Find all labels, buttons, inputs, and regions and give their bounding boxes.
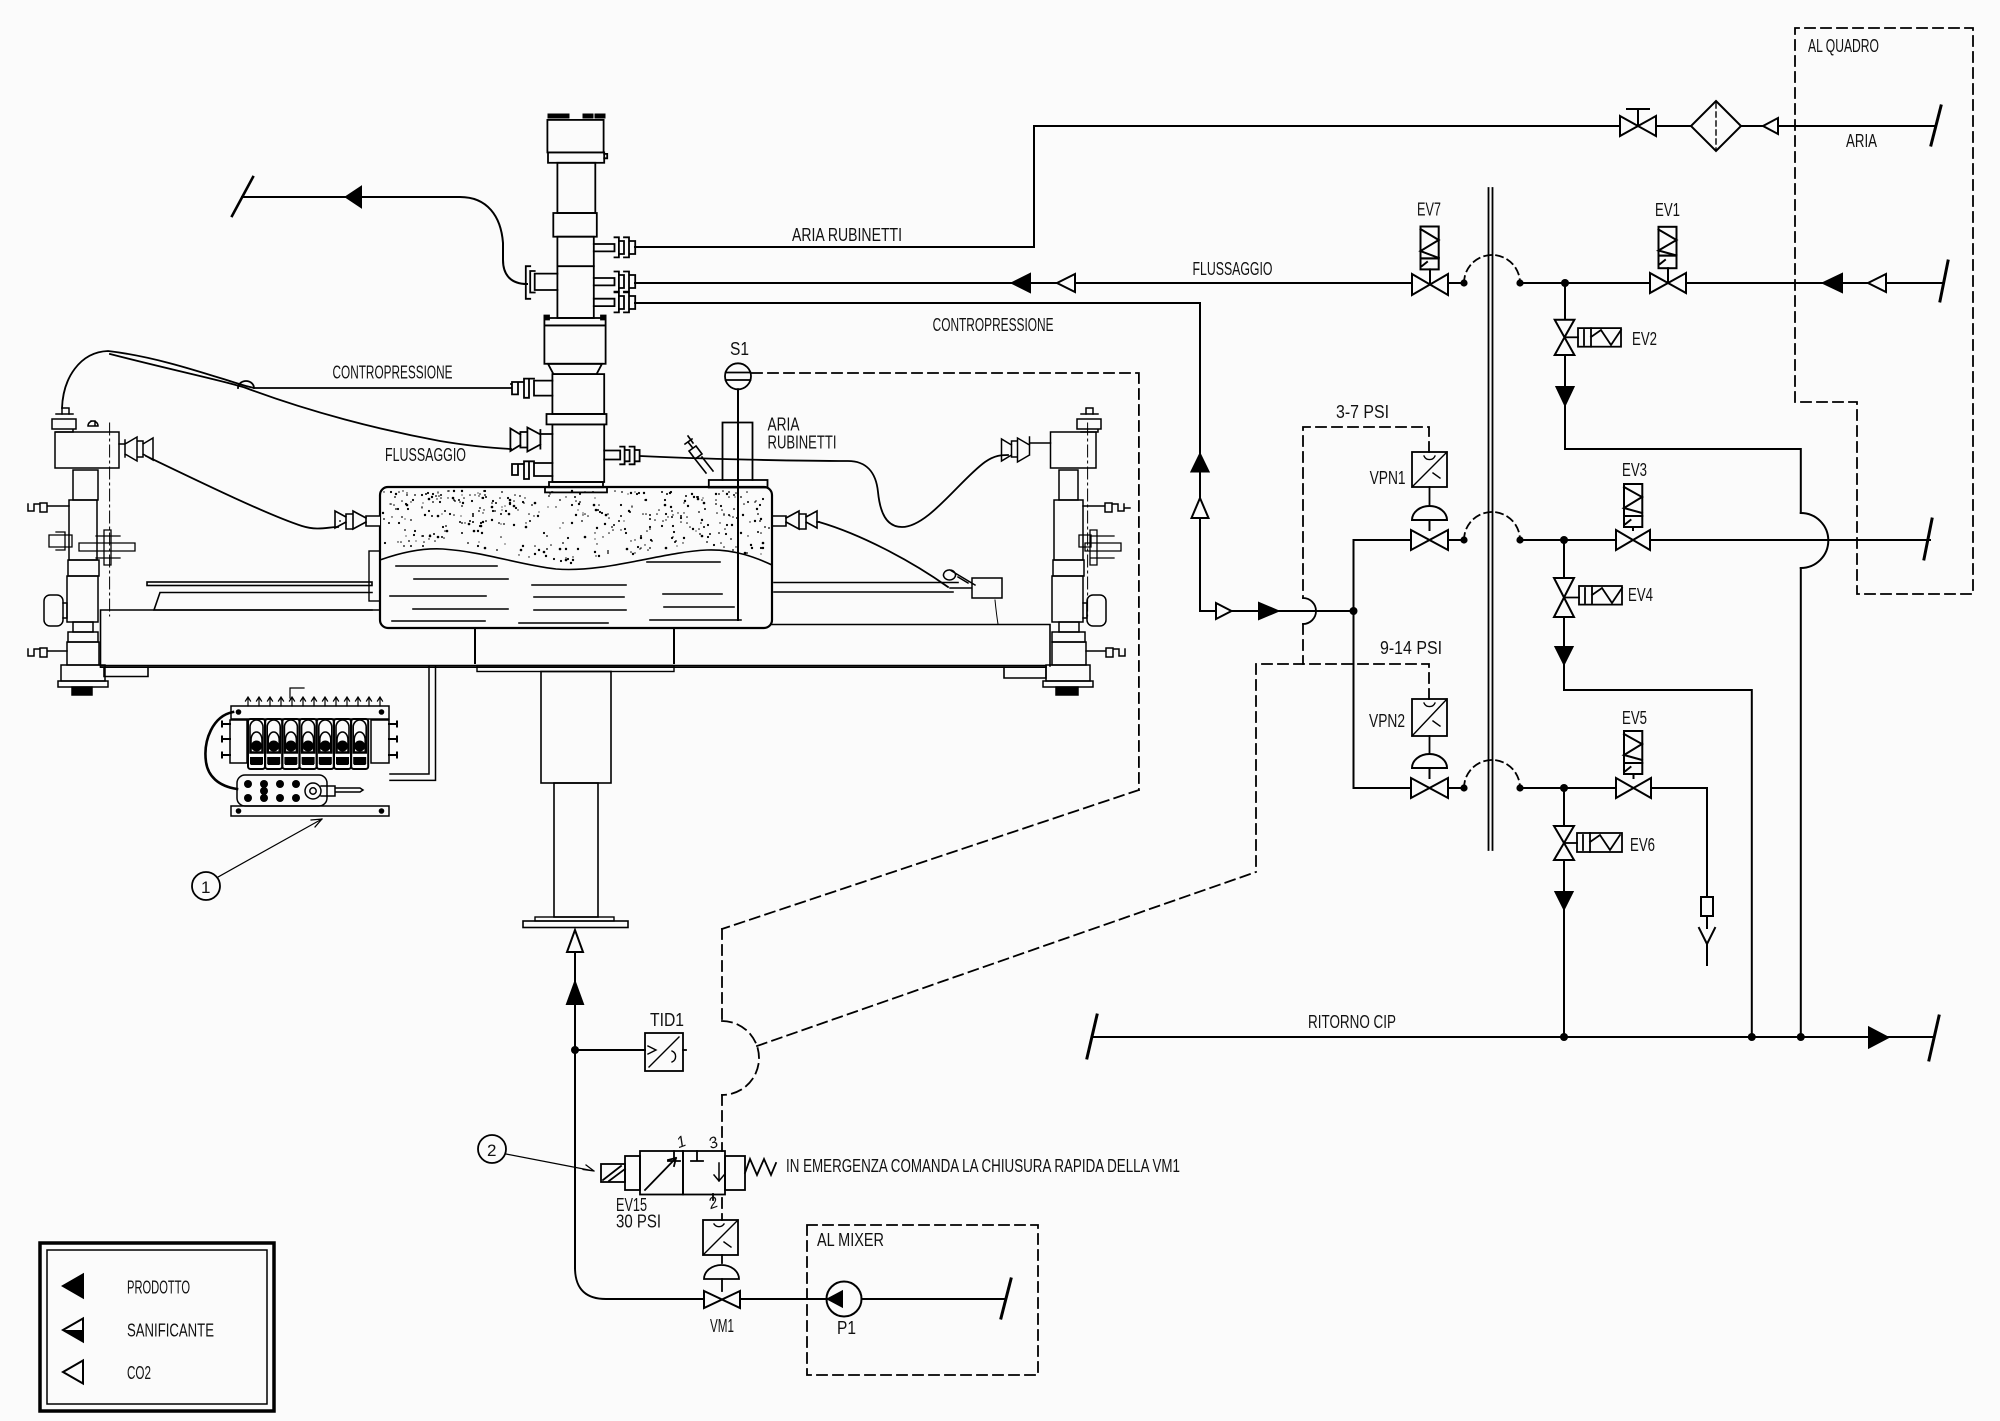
valve EV15 (3/2 emergency) bbox=[601, 1151, 776, 1200]
junction dot VPN1 right bbox=[1460, 536, 1467, 543]
arrow flussaggio open left bbox=[1057, 274, 1075, 292]
arrow contropressione open up bbox=[1192, 498, 1209, 518]
leader line item 2 bbox=[506, 1154, 594, 1171]
pump P1 bbox=[827, 1282, 862, 1317]
left assembly cross handle bbox=[79, 530, 135, 565]
column big collar bbox=[544, 316, 605, 320]
legend arrow SANIFICANTE half-filled bbox=[63, 1319, 83, 1342]
svg-text:CO2: CO2 bbox=[127, 1363, 151, 1383]
plate under bed bbox=[477, 666, 674, 672]
drip tray left of tank bbox=[154, 593, 372, 611]
leader line item 1 bbox=[218, 819, 322, 877]
wire jump arc x1800 over EV3 line bbox=[1801, 513, 1828, 568]
hose tank left port to assembly bbox=[146, 456, 338, 529]
column tube upper bbox=[557, 237, 593, 318]
column cap bolts bbox=[550, 114, 603, 119]
column neck bbox=[557, 163, 595, 213]
manifold plug bbox=[305, 783, 321, 799]
manifold top plate bbox=[231, 706, 389, 719]
right assembly top bolt bbox=[1077, 414, 1101, 432]
dashed jump arc over bar (VPN1 row) bbox=[1464, 512, 1520, 540]
upper rail left of tank bbox=[147, 582, 372, 586]
port A (aria rubinetti) bbox=[594, 237, 635, 257]
positioner box VPN1 bbox=[1412, 452, 1447, 506]
dashed box AL MIXER bbox=[807, 1225, 1038, 1375]
manifold connector pins bbox=[246, 697, 383, 706]
arrow open right (to VPN junction) bbox=[1216, 603, 1232, 619]
left assembly top bolt bbox=[52, 414, 76, 432]
port D left (contropressione hose) bbox=[511, 379, 552, 398]
dashed box 9-14 PSI bbox=[1256, 664, 1429, 872]
dashed jump arc over bar (VPN2 row) bbox=[1464, 760, 1520, 788]
drain orifice EV5 branch bbox=[1701, 897, 1713, 916]
right assembly head block bbox=[1051, 432, 1097, 468]
arrow right-end filled left bbox=[1823, 274, 1842, 292]
right assembly upper body bbox=[1059, 470, 1078, 500]
svg-text:AL MIXER: AL MIXER bbox=[817, 1230, 884, 1250]
svg-text:EV1: EV1 bbox=[1655, 200, 1680, 220]
svg-text:CONTROPRESSIONE: CONTROPRESSIONE bbox=[333, 363, 453, 383]
wire ARIA drop to ARIA RUBINETTI bbox=[1033, 126, 1035, 247]
legend arrow PRODOTTO filled bbox=[63, 1275, 83, 1298]
wire FLUSSAGGIO main bbox=[635, 282, 1944, 284]
node dot ritorno EV2 bbox=[1797, 1033, 1805, 1041]
filter F (ARIA line) bbox=[1691, 101, 1741, 151]
pedestal flange bbox=[535, 917, 614, 921]
svg-text:EV4: EV4 bbox=[1628, 585, 1653, 605]
left assembly bottom block bbox=[67, 642, 99, 665]
wire product feed vertical bbox=[574, 952, 576, 1268]
node dot ritorno EV4 bbox=[1748, 1033, 1756, 1041]
junction dot EV7 right bbox=[1460, 279, 1467, 286]
wire EV2 branch to x1800 bbox=[1565, 449, 1801, 513]
column flange band bbox=[547, 414, 607, 424]
dashed EV15 pilot line to regulator bbox=[721, 1198, 723, 1220]
hose loop mark bbox=[238, 381, 254, 388]
svg-text:FLUSSAGGIO: FLUSSAGGIO bbox=[1193, 259, 1273, 279]
svg-text:EV6: EV6 bbox=[1630, 835, 1655, 855]
pedestal upper bbox=[541, 672, 611, 784]
right assembly right stub bolt bbox=[1083, 503, 1130, 512]
spring EV15 bbox=[745, 1159, 776, 1175]
wire ARIA header line bbox=[1034, 125, 1935, 127]
svg-text:30 PSI: 30 PSI bbox=[616, 1212, 661, 1232]
left assembly neck and flange bbox=[73, 622, 93, 632]
right assembly foot cup bbox=[1046, 665, 1090, 681]
actuator dome VPN2 bbox=[1412, 754, 1447, 778]
hose flussaggio (column to left assembly) bbox=[110, 354, 511, 449]
right rail to petcock bbox=[774, 583, 958, 593]
left assembly upper body bbox=[73, 470, 98, 500]
wire EV6 branch bbox=[1563, 788, 1565, 1037]
left assembly right diabolo bbox=[119, 437, 153, 461]
arrow top-left filled bbox=[346, 187, 361, 207]
svg-text:EV2: EV2 bbox=[1632, 329, 1657, 349]
wire VPN2 branch bbox=[1354, 611, 1708, 965]
tank left port fitting bbox=[335, 511, 380, 529]
right assembly centerline bbox=[1087, 423, 1089, 616]
wire aria rubinetti hose (column to right assembly) bbox=[640, 455, 1008, 527]
svg-text:RUBINETTI: RUBINETTI bbox=[768, 433, 837, 453]
left assembly foot cup bbox=[61, 665, 105, 681]
wire EV2 branch vertical bbox=[1564, 283, 1566, 449]
legend inner frame bbox=[47, 1250, 267, 1404]
wire VPN1 branch bbox=[1354, 540, 1931, 611]
svg-text:AL QUADRO: AL QUADRO bbox=[1808, 36, 1879, 56]
dashed TID1 signal stub bbox=[683, 1049, 686, 1051]
valve EV5 bbox=[1616, 731, 1651, 798]
manifold bottom plate bbox=[231, 806, 389, 816]
node junction EV6 bbox=[1560, 784, 1568, 792]
arrow EV6 down filled bbox=[1556, 892, 1573, 909]
port C (contropressione) bbox=[594, 292, 635, 312]
solenoid EV4 bbox=[1564, 586, 1622, 605]
solenoid EV2 bbox=[1565, 328, 1622, 347]
valve VM1 bbox=[704, 1291, 740, 1308]
dashed box 3-7 PSI bbox=[1303, 427, 1429, 664]
tank wave surface bbox=[380, 549, 772, 570]
svg-text:SANIFICANTE: SANIFICANTE bbox=[127, 1321, 214, 1341]
valve VPN1 bowtie bbox=[1411, 530, 1448, 550]
arrow filled right (to VPN junction) bbox=[1259, 603, 1278, 619]
tank foam speckles bbox=[507, 497, 509, 499]
svg-text:FLUSSAGGIO: FLUSSAGGIO bbox=[385, 445, 466, 465]
hose contropressione (left assembly to column) bbox=[62, 351, 511, 408]
actuator dome VPN1 bbox=[1412, 506, 1447, 530]
port G right (aria rubinetti hose) bbox=[604, 447, 639, 465]
bed notch right bbox=[1004, 667, 1046, 678]
arrow CO2 open left (ARIA line) bbox=[1763, 118, 1778, 134]
column base flange bbox=[549, 482, 603, 487]
solenoid EV6 bbox=[1564, 833, 1622, 852]
svg-text:9-14 PSI: 9-14 PSI bbox=[1380, 638, 1442, 658]
svg-text:VPN1: VPN1 bbox=[1370, 468, 1406, 488]
tank liquid lines bbox=[390, 562, 741, 623]
wire CONTROPRESSIONE bbox=[635, 303, 1354, 611]
wire product corner to VM1 bbox=[575, 1268, 827, 1299]
manifold side bolts bbox=[222, 722, 397, 758]
wire top-left product out bbox=[242, 197, 527, 284]
svg-text:3-7 PSI: 3-7 PSI bbox=[1336, 402, 1389, 422]
dashed jump arc over bar (flussaggio) bbox=[1464, 255, 1520, 283]
svg-text:VPN2: VPN2 bbox=[1369, 711, 1405, 731]
valve EV3 bbox=[1616, 484, 1650, 550]
wire EV4 branch bbox=[1564, 540, 1752, 1037]
arrow product open up bbox=[567, 930, 583, 952]
node junction EV4 bbox=[1560, 536, 1568, 544]
arrow flussaggio filled left bbox=[1012, 274, 1030, 292]
callout circle 1 bbox=[192, 872, 220, 900]
transmitter TID1 bbox=[645, 1033, 683, 1071]
svg-text:ARIA: ARIA bbox=[1846, 131, 1877, 151]
petcock on right assembly bbox=[944, 570, 1003, 598]
column collar bbox=[553, 213, 597, 237]
left assembly bottom left bolt bbox=[28, 648, 67, 657]
svg-text:EV7: EV7 bbox=[1417, 200, 1441, 220]
node junction VPN bbox=[1350, 607, 1358, 615]
tank top port tube bbox=[685, 423, 768, 488]
left assembly left stub bolt bbox=[28, 503, 69, 512]
dashed cloud diagonal 1 bbox=[722, 790, 1139, 929]
column cap plate bbox=[548, 152, 604, 162]
manifold cable bbox=[205, 712, 237, 789]
svg-text:VM1: VM1 bbox=[710, 1316, 734, 1336]
line-end slash EV3 right bbox=[1924, 519, 1932, 559]
svg-text:PRODOTTO: PRODOTTO bbox=[127, 1278, 190, 1298]
arrow product filled up bbox=[567, 982, 583, 1004]
sensor S1 bbox=[725, 363, 751, 620]
port B (flussaggio) bbox=[594, 272, 635, 292]
wire TID1 tap bbox=[575, 1049, 645, 1051]
svg-text:ARIA RUBINETTI: ARIA RUBINETTI bbox=[792, 225, 902, 245]
line-end slash ARIA bbox=[1931, 106, 1941, 145]
positioner box VPN2 bbox=[1412, 699, 1447, 753]
valve hand (ARIA line) bbox=[1620, 109, 1656, 136]
right assembly cross handle bbox=[1085, 530, 1121, 565]
tank body bbox=[380, 487, 772, 628]
pedestal lower bbox=[554, 783, 598, 917]
manifold valve units bbox=[248, 719, 368, 769]
right assembly bottom block bbox=[1052, 642, 1086, 665]
svg-text:1: 1 bbox=[201, 878, 210, 897]
svg-text:RITORNO CIP: RITORNO CIP bbox=[1308, 1012, 1396, 1032]
valve EV1 bbox=[1650, 227, 1686, 293]
junction dot bar right (flussaggio) bbox=[1516, 279, 1523, 286]
svg-text:2: 2 bbox=[487, 1141, 496, 1160]
machine bed bottom rail bbox=[101, 666, 1047, 668]
right assembly lower body bbox=[1053, 560, 1084, 576]
wire RITORNO CIP bbox=[1092, 1036, 1934, 1038]
svg-text:EV5: EV5 bbox=[1622, 708, 1647, 728]
legend arrow CO2 open bbox=[63, 1361, 83, 1384]
svg-text:EV3: EV3 bbox=[1622, 460, 1647, 480]
svg-text:CONTROPRESSIONE: CONTROPRESSIONE bbox=[933, 315, 1054, 335]
arrow contropressione filled up bbox=[1192, 454, 1209, 472]
junction dot bar right (VPN1 row) bbox=[1516, 536, 1523, 543]
left assembly head block bbox=[55, 432, 119, 468]
tank legs bbox=[475, 628, 674, 663]
manifold bottom connector plate bbox=[237, 775, 327, 806]
hose tank right port to petcock bbox=[819, 522, 948, 587]
right assembly neck and flange bbox=[1059, 622, 1079, 632]
junction dot bar right (VPN2 row) bbox=[1516, 784, 1523, 791]
dashed cloud diagonal 2 bbox=[757, 872, 1256, 1046]
left assembly top small screw bbox=[88, 421, 98, 426]
port left big bbox=[526, 266, 558, 299]
dashed jump arc on 3-7 box edge bbox=[1303, 598, 1316, 624]
dashed cloud jump arc over TID1 line bbox=[722, 1021, 759, 1095]
line-end slash ritorno right bbox=[1929, 1016, 1939, 1060]
legend outer frame bbox=[40, 1243, 274, 1411]
line-end slash al mixer bbox=[1001, 1279, 1011, 1318]
column cap bbox=[547, 120, 603, 152]
arrow EV4 down filled bbox=[1556, 647, 1573, 664]
node junction EV2 branch bbox=[1561, 279, 1569, 287]
machine bed body bbox=[101, 610, 1051, 666]
svg-text:ARIA: ARIA bbox=[768, 415, 800, 435]
manifold L-connector to bed bbox=[390, 666, 436, 780]
manifold side plates bbox=[230, 720, 247, 763]
tank right port fitting bbox=[772, 511, 819, 529]
port E left diabolo (flussaggio hose) bbox=[510, 428, 552, 452]
callout circle 2 bbox=[478, 1135, 506, 1163]
arrow right-end open left bbox=[1868, 274, 1886, 292]
valve EV6 (vertical) bbox=[1554, 826, 1574, 860]
arrow ritorno filled right bbox=[1869, 1028, 1888, 1048]
right assembly left diabolo bbox=[1002, 437, 1051, 462]
junction dot VPN2 right bbox=[1460, 784, 1467, 791]
left assembly lower body bbox=[68, 560, 99, 576]
petcock drain wire bbox=[995, 600, 998, 624]
dashed box AL QUADRO bbox=[1795, 28, 1973, 594]
dashed cloud S1 to tank boundary bbox=[752, 373, 1139, 790]
wire P1 to end bbox=[862, 1298, 1006, 1300]
node dot ritorno EV6 bbox=[1560, 1033, 1568, 1041]
column tube lower bbox=[552, 424, 604, 482]
svg-text:P1: P1 bbox=[837, 1318, 856, 1338]
left assembly centerline bbox=[109, 423, 111, 616]
line-end slash ritorno left bbox=[1087, 1015, 1097, 1058]
left assembly knob bbox=[44, 595, 63, 626]
svg-text:IN EMERGENZA COMANDA LA CHIUSU: IN EMERGENZA COMANDA LA CHIUSURA RAPIDA … bbox=[786, 1156, 1180, 1176]
wire x1800 down to ritorno bbox=[1800, 568, 1802, 1037]
svg-text:S1: S1 bbox=[730, 339, 749, 359]
svg-text:TID1: TID1 bbox=[650, 1010, 684, 1030]
column tube mid bbox=[552, 374, 604, 414]
tank left flange plate bbox=[369, 551, 380, 601]
regulator (VM1 pilot) bbox=[703, 1220, 739, 1291]
right assembly knob bbox=[1087, 595, 1106, 626]
node junction TID1 bbox=[571, 1046, 579, 1054]
valve EV7 bbox=[1412, 227, 1448, 296]
valve EV4 (vertical) bbox=[1554, 578, 1574, 617]
port F left lower stub bbox=[512, 461, 552, 479]
drain arrow open down bbox=[1699, 928, 1715, 944]
separation bar (panel boundary) bbox=[1489, 188, 1493, 850]
line-end slash top-left bbox=[232, 177, 253, 216]
line-end slash flussaggio right bbox=[1940, 261, 1948, 301]
wire ARIA RUBINETTI bbox=[635, 246, 1034, 248]
valve EV2 (vertical) bbox=[1555, 320, 1575, 355]
right assembly bottom right bolt bbox=[1086, 648, 1125, 657]
bed notch left bbox=[104, 667, 148, 676]
valve VPN2 bowtie bbox=[1411, 778, 1448, 798]
arrow EV2 down filled bbox=[1557, 387, 1574, 405]
dashed cloud vertical at x722 bbox=[721, 929, 723, 1151]
